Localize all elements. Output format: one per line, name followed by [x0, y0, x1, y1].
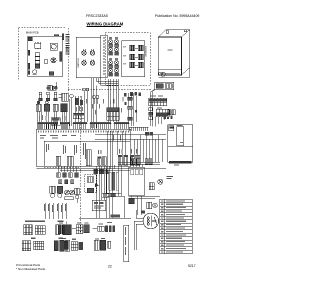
svg-text:Publication No. 5995A44409: Publication No. 5995A44409	[155, 14, 199, 18]
bottom row A capacitor	[98, 226, 105, 231]
title WIRING DIAGRAM	[87, 21, 124, 27]
evap fan label	[25, 221, 63, 222]
harness stub glyphs right	[168, 110, 176, 115]
bottom row B splice b	[71, 242, 78, 250]
ground arrow	[95, 183, 99, 187]
ice maker mounting tab right	[184, 30, 187, 32]
bottom row B extra labels	[72, 238, 99, 240]
dispenser switch housing	[122, 41, 145, 77]
defrost thermostat B	[57, 186, 63, 197]
compartment dashed boundary center divider	[44, 28, 152, 232]
mid harness connector block	[73, 113, 84, 119]
evap fan motor M2	[35, 226, 45, 235]
ice maker 3D housing	[158, 30, 190, 78]
svg-text:* Non Illustrated Parts: * Non Illustrated Parts	[16, 267, 46, 271]
power board connector CN30	[86, 150, 91, 166]
condenser frame drops	[129, 165, 161, 215]
splice circles mid column a	[83, 88, 90, 96]
svg-text:DOOR: DOOR	[65, 46, 67, 53]
right harness connector block	[107, 108, 120, 121]
inverter dashed box	[85, 174, 97, 192]
valve box label	[177, 124, 183, 127]
power board relay RL1	[56, 156, 61, 165]
right riser wires to relays	[107, 131, 125, 169]
run capacitor	[129, 198, 135, 203]
cluster labels	[40, 87, 58, 100]
wire bundle UI to bus	[91, 78, 118, 128]
fan motor pair circles	[64, 190, 74, 200]
door harness strip	[101, 35, 107, 78]
valve box foot text	[174, 165, 179, 166]
water valve assembly box	[168, 125, 193, 163]
legend table	[160, 199, 193, 253]
PTC housing box	[107, 196, 125, 218]
wire bundle right riser	[129, 93, 137, 126]
condenser bus	[118, 162, 160, 164]
fuse stack F2	[149, 108, 153, 120]
bottom row B splice d	[94, 240, 99, 250]
dispenser connector pair CN24	[109, 66, 119, 76]
valve box base bar	[169, 161, 192, 163]
board connector CN1	[28, 37, 32, 41]
wire drops below power board	[58, 166, 76, 172]
legend table text fill	[161, 200, 186, 252]
drain heater H4	[64, 241, 68, 249]
dispenser connector pair CN21	[109, 37, 119, 47]
svg-text:DISPENSER: DISPENSER	[144, 46, 146, 58]
board connector pair B	[118, 155, 128, 165]
wire code smudges middle band	[39, 97, 123, 121]
heater element H1	[56, 225, 60, 235]
connector above inverter b	[111, 193, 116, 197]
sensor glyph right	[75, 188, 80, 203]
main control board outline	[28, 36, 63, 77]
compressor klixon	[141, 211, 145, 214]
power control board outline	[36, 129, 130, 166]
paddle switch SW3 row	[123, 64, 126, 66]
UI connector J3	[82, 59, 86, 65]
compartment dashed boundary top	[19, 28, 67, 80]
fz fan motor M4	[34, 241, 44, 249]
board connector pair A	[98, 157, 107, 166]
bottom row A heater pair	[58, 225, 64, 234]
thermistor RT2	[46, 92, 50, 101]
svg-text:22: 22	[108, 265, 112, 269]
svg-text:MAIN PCB: MAIN PCB	[26, 30, 39, 34]
board capacitor C5	[44, 60, 48, 64]
board connector CN6 bottom	[49, 72, 54, 76]
valve box coil tower	[177, 127, 184, 146]
start relay overload	[147, 202, 158, 209]
bus wire drops right	[134, 135, 162, 163]
UI connector J1	[82, 49, 86, 55]
main harness header block	[149, 98, 167, 106]
dispenser dashed enclosure	[105, 33, 150, 86]
inverter box	[92, 200, 105, 211]
compressor motor	[143, 213, 159, 229]
bottom row A dark cap	[65, 225, 69, 233]
power board wire code text	[40, 135, 76, 138]
bottom row A splice a	[72, 225, 83, 234]
defrost heater block	[149, 183, 154, 190]
defrost thermostat A	[50, 186, 56, 197]
dispenser connector pair CN22	[109, 45, 119, 55]
board connector pair C	[130, 155, 140, 165]
board edge connector CN4	[28, 71, 30, 74]
connector labels above pairs	[98, 149, 137, 154]
board fuse F1	[54, 34, 64, 40]
reed switch cluster row2 b	[44, 101, 50, 111]
UI connector J2	[90, 49, 94, 55]
svg-text:UI BOARD: UI BOARD	[77, 58, 80, 68]
freezer sensor pair	[59, 94, 74, 126]
paddle switch SW1 row	[123, 47, 126, 49]
footer document number	[188, 264, 196, 268]
bus drop connector pair right	[145, 159, 152, 165]
svg-text:5217: 5217	[188, 264, 196, 268]
bottom row B dark c	[79, 242, 83, 250]
paddle switch SW2 row	[123, 56, 126, 58]
ice maker harness wire	[151, 90, 155, 126]
wire bundle dispenser to bus	[108, 79, 119, 122]
inverter filter block	[87, 177, 94, 182]
inline connector CN42	[128, 117, 132, 120]
wire labels drop group	[44, 203, 66, 219]
secondary header block	[156, 109, 169, 117]
bus drop connector pair left	[131, 159, 140, 165]
splice row below board	[94, 169, 109, 175]
footer functional parts note	[16, 263, 46, 271]
connector above inverter a	[102, 193, 109, 197]
pin header comb J12	[73, 122, 88, 129]
pin header comb J14	[114, 122, 130, 129]
board edge connector CN3	[28, 63, 30, 69]
door switch DS1	[62, 93, 69, 101]
pin header comb J10	[38, 122, 58, 129]
dark splice mid column	[76, 98, 83, 105]
header model number text	[86, 14, 109, 18]
reed switch cluster row2 c	[53, 104, 58, 111]
UI board vertical label strip	[77, 58, 80, 68]
harness connector P12 below board	[48, 85, 52, 90]
bottom row B splice a	[60, 240, 70, 251]
ice maker motor boss	[159, 72, 166, 76]
pin header comb J11	[60, 122, 70, 129]
board transformer T1	[50, 43, 57, 50]
svg-text:SW: SW	[123, 47, 126, 49]
heater element H2	[63, 222, 72, 235]
bottom row A splice b	[84, 225, 90, 233]
reed switch cluster row2 d	[61, 104, 68, 112]
mullion heater H3	[54, 241, 63, 251]
UI connector J4	[90, 59, 94, 65]
svg-text:SW: SW	[123, 56, 126, 58]
svg-text:SW: SW	[123, 64, 126, 66]
bottom row B splice f	[108, 241, 111, 248]
lower bus wires	[37, 169, 167, 219]
ice maker label	[167, 49, 172, 50]
bottom row A dark T pair	[105, 225, 115, 232]
ice maker mounting tab left	[166, 31, 169, 33]
thermistor RT1	[39, 92, 43, 101]
inline splice row 2	[59, 180, 74, 184]
wire code strip	[124, 225, 129, 262]
wire stub below board	[56, 82, 58, 88]
board edge connector CN5	[60, 52, 62, 62]
riser cap marks	[124, 92, 141, 112]
terminal marks	[166, 176, 173, 179]
center riser bundle	[97, 166, 122, 218]
thermistor RT3	[54, 92, 58, 101]
terminal ladder strip TB1	[66, 34, 70, 55]
bottom row B label	[62, 238, 105, 239]
splice circles mid column b	[93, 96, 100, 105]
board edge connector CN2	[28, 50, 30, 55]
footer page number	[108, 265, 112, 269]
bottom row B dark e	[100, 240, 106, 250]
pin header comb J13	[90, 122, 112, 129]
condenser section frame	[129, 167, 145, 196]
svg-text:FRSC2333AS: FRSC2333AS	[86, 14, 109, 18]
condenser fan motor	[158, 179, 163, 184]
bottom row A wire link	[93, 228, 98, 230]
power board relay RL2	[67, 156, 73, 166]
inline splice row	[57, 173, 79, 177]
wire bundle cluster to PCB	[37, 111, 66, 129]
board IC U10	[35, 42, 41, 49]
valve box solenoid window	[169, 126, 174, 131]
wires header to valve box	[152, 106, 164, 127]
header publication number text	[155, 14, 199, 18]
bottom row A labels	[59, 222, 112, 225]
inline connector CN40	[128, 97, 132, 100]
fz fan motor M3	[22, 241, 31, 251]
relay terminal housing	[106, 169, 121, 194]
harness connector P13 below board	[53, 86, 56, 90]
power board pin numbers row	[38, 131, 129, 133]
180 label row2 left	[31, 238, 63, 239]
UI display board box	[76, 37, 100, 77]
inline connector CN41	[128, 106, 132, 109]
wire bundle center risers	[75, 96, 87, 122]
MAIN PCB label	[26, 30, 39, 34]
header label smudges	[150, 96, 163, 109]
connector caps row	[145, 132, 153, 136]
inverter filter block 2	[87, 188, 94, 192]
power board vertical wire labels	[46, 135, 121, 160]
board relay K5 star	[51, 58, 56, 63]
pin comb J15	[129, 127, 149, 131]
UI board label vertical	[65, 46, 67, 53]
reed switch cluster row2 a	[36, 101, 41, 111]
ice maker plug connector	[155, 82, 174, 90]
svg-text:WIRING DIAGRAM: WIRING DIAGRAM	[87, 21, 124, 26]
dispenser connector pair CN23	[109, 58, 119, 68]
board relay bank K1-K4	[35, 53, 40, 68]
compressor feed wires	[134, 210, 143, 250]
dispenser vertical label	[144, 46, 146, 58]
board inductor L1	[33, 70, 37, 74]
bus wires upper	[44, 135, 166, 167]
valve inlet marks	[164, 116, 173, 120]
evap fan motor M1	[24, 225, 33, 235]
harness block mid-left	[51, 118, 60, 126]
